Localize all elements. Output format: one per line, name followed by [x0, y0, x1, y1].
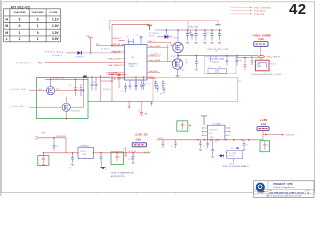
legend wire 1 [231, 6, 271, 9]
wire vertical x100 [100, 75, 112, 101]
ground sym below caps [128, 101, 131, 108]
caps row under rail C7 [135, 77, 138, 91]
svg-text:0: 0 [19, 17, 21, 21]
capacitor bank C4 [93, 77, 98, 90]
red dot near green box4 [189, 125, 190, 126]
resistor R1 [112, 36, 128, 40]
svg-text:VGA_LGATE: VGA_LGATE [149, 59, 161, 62]
svg-text:C?: C? [122, 77, 124, 79]
long rail wire y77 [88, 76, 153, 78]
capacitor C42 [236, 55, 241, 66]
capacitor C30 [100, 152, 103, 161]
rail label +1.2V_S5 [132, 132, 148, 146]
diode D5 filled above box [231, 147, 239, 150]
svg-text:VGA_CORE(S5M): VGA_CORE(S5M) [254, 6, 271, 9]
svg-text:C?: C? [246, 144, 248, 146]
svg-text:SOT23: SOT23 [149, 35, 155, 37]
svg-text:R?: R? [121, 91, 123, 93]
svg-text:R? 0_4: R? 0_4 [270, 63, 276, 65]
wire PQ2 drain right [70, 103, 83, 107]
label row above output rail [207, 49, 229, 53]
wire gate1 from controller [147, 43, 173, 46]
1.8v output rail [157, 138, 257, 141]
capacitor C37 [203, 140, 209, 149]
svg-text:S5_E: S5_E [59, 52, 65, 54]
svg-text:C?: C? [184, 124, 186, 126]
capacitor C41 [222, 55, 229, 66]
capacitor bank C3 [91, 77, 94, 91]
net stub label VGA_EN [59, 52, 77, 54]
diode D3 small filled [100, 161, 107, 171]
capacitor C25 [185, 55, 198, 70]
svg-text:Quanta Computer Inc.: Quanta Computer Inc. [274, 186, 296, 189]
regulator IC U3 [77, 145, 94, 159]
svg-text:P1V8_NB-S5: P1V8_NB-S5 [254, 11, 267, 13]
output rail wire [178, 55, 258, 57]
capacitor C26 right [240, 57, 247, 71]
regulator IC U4 [207, 124, 225, 140]
capacitor C43 [251, 56, 254, 66]
title block frame [254, 181, 314, 198]
svg-text:D?: D? [231, 148, 233, 150]
border zone ticks sides [0, 49, 315, 145]
project text [274, 183, 296, 189]
controller IC U1 [125, 45, 148, 81]
svg-text:+VIN_VGA: +VIN_VGA [188, 25, 199, 28]
svg-text:VIN VOUT: VIN VOUT [210, 129, 218, 131]
svg-text:VGA_CORE_PL: VGA_CORE_PL [267, 55, 281, 58]
capacitor C38 tall [211, 140, 214, 157]
capacitor C16 beside PQ3 [188, 33, 194, 39]
svg-text:PWR_SRC: PWR_SRC [56, 136, 67, 138]
module stubs [211, 56, 220, 62]
svg-text:NOTE: C? NEAR PIN VDD: NOTE: C? NEAR PIN VDD [111, 171, 134, 174]
capacitor C15 input bypass [190, 30, 192, 34]
svg-text:C?: C? [69, 167, 71, 169]
U1 top stubs [129, 38, 142, 45]
svg-text:U? AP1117: U? AP1117 [80, 145, 89, 148]
table data text [5, 17, 59, 41]
input rail wire [155, 29, 222, 31]
capacitor C10 [186, 29, 192, 40]
U1 right pin wires [147, 45, 168, 79]
legend wire 3 [231, 13, 265, 16]
svg-text:L: L [6, 37, 8, 41]
wire PQ4 source to ground [176, 69, 180, 77]
svg-text:R?: R? [160, 94, 162, 96]
wire sense box down [260, 46, 262, 55]
svg-text:42: 42 [289, 1, 307, 18]
resistor R2 [128, 41, 134, 43]
svg-text:H_VGA_VID<0>: H_VGA_VID<0> [16, 62, 32, 65]
table header text [13, 11, 58, 14]
mosfet PQ4 low-side [172, 56, 186, 71]
svg-text:C?: C? [209, 66, 211, 68]
capacitor C11 [194, 29, 197, 40]
capacitor C14 [218, 29, 221, 40]
svg-text:VGACORE1: VGACORE1 [31, 11, 44, 14]
output red wire with loop [236, 55, 280, 58]
svg-text:VGA_BST: VGA_BST [112, 37, 122, 40]
red rail in green box [45, 77, 88, 80]
red module box U2 [255, 58, 269, 71]
caps inside loop C19 [162, 81, 168, 89]
svg-text:Date: Friday, May 05, 2006: Date: Friday, May 05, 2006 Sheet 42 of 6… [266, 194, 302, 197]
capacitor C39 [243, 140, 249, 151]
wire gate PQ1 [10, 88, 47, 91]
svg-text:+VGA_CORE: +VGA_CORE [52, 77, 65, 80]
svg-text:C?: C? [138, 110, 140, 112]
capacitor C31 in green box3 [116, 152, 122, 161]
svg-text:PQ? 4435: PQ? 4435 [71, 111, 80, 113]
power bar +3VSUS [86, 36, 94, 54]
svg-text:C?: C? [171, 146, 173, 148]
border zone ticks bottom [20, 192, 215, 195]
svg-text:M: M [5, 31, 8, 35]
U1 bottom stubs with parts [129, 80, 143, 90]
capacitor C12 [203, 29, 209, 40]
capacitor C33 in green box4 [181, 122, 186, 130]
wire PQ1 drain right [55, 79, 85, 103]
svg-text:1: 1 [19, 37, 21, 41]
svg-text:C?: C? [93, 82, 95, 84]
svg-text:+3VS: +3VS [86, 36, 92, 38]
wire down to regulator row [65, 138, 67, 153]
svg-text:D?: D? [105, 169, 107, 171]
ground cluster under input caps [186, 43, 221, 44]
svg-text:C?: C? [219, 66, 221, 68]
svg-text:0: 0 [37, 17, 39, 21]
capacitor C36 [199, 140, 202, 151]
svg-text:(?) Removed GSRM_NB_v1.1.SCH: (?) Removed GSRM_NB_v1.1.SCH [251, 74, 282, 76]
capacitor C32 [132, 152, 135, 164]
offpage connector node [35, 132, 66, 139]
svg-text:+1.8V: +1.8V [260, 118, 268, 122]
svg-text:0: 0 [19, 24, 21, 28]
svg-text:VGA_CLKEN-: VGA_CLKEN- [108, 58, 121, 61]
svg-text:+1.8V_S5: +1.8V_S5 [285, 135, 295, 137]
svg-text:1.0V: 1.0V [52, 24, 59, 28]
svg-text:D? BAV70: D? BAV70 [75, 56, 84, 59]
voltage table [4, 9, 61, 42]
quanta logo [256, 183, 266, 195]
svg-text:(?): (?) [215, 51, 218, 53]
svg-text:R? 10_4: R? 10_4 [103, 77, 110, 79]
svg-text:R? 100K_4: R? 100K_4 [52, 55, 63, 57]
svg-text:0.9V: 0.9V [52, 37, 59, 41]
U1 right pin labels [149, 41, 162, 79]
wire into U1 pin row [96, 43, 125, 54]
capacitor C1 in green box [69, 79, 77, 97]
wire branch to input rail [187, 21, 189, 31]
svg-text:1: 1 [37, 37, 39, 41]
sense loop wire top [110, 21, 219, 32]
svg-text:U? G966: U? G966 [213, 124, 221, 126]
svg-text:0: 0 [37, 31, 39, 35]
svg-text:C?: C? [56, 146, 58, 148]
capacitor C27 [53, 137, 59, 150]
capacitor C35 [171, 140, 177, 148]
svg-text:H_VSUS_GATE: H_VSUS_GATE [10, 105, 25, 108]
legend wire 2 [231, 10, 267, 13]
capacitor C29 [69, 152, 74, 169]
svg-text:H_VCORE_GATE: H_VCORE_GATE [10, 88, 27, 91]
capacitor C40 in green box5 [263, 141, 269, 150]
svg-text:C?: C? [119, 156, 121, 158]
capacitor C23 in module [208, 66, 216, 73]
capacitor C22 [156, 84, 159, 93]
diode D4 filled [219, 154, 224, 157]
green group box 3 [111, 152, 124, 165]
long rail wire y101 [88, 100, 153, 102]
svg-text:VGA_FBO: VGA_FBO [149, 70, 159, 73]
svg-text:+1.2V_S5: +1.2V_S5 [134, 132, 148, 136]
svg-text:P1V8_S5M: P1V8_S5M [254, 14, 264, 16]
svg-text:U? G5P4: U? G5P4 [229, 153, 236, 155]
U4 pin stubs [203, 128, 230, 143]
wire red riser near table [112, 24, 150, 45]
svg-text:GSRM_V8_PWR_CONN: GSRM_V8_PWR_CONN [207, 49, 229, 51]
svg-text:R? 470K_4 1%: R? 470K_4 1% [45, 52, 59, 54]
svg-text:L?: L? [256, 51, 258, 53]
svg-text:C?: C? [188, 33, 190, 35]
wire gate PQ2 [10, 105, 62, 108]
capacitor C20 with red label [138, 101, 147, 116]
capacitor C5 red [117, 76, 124, 88]
capacitor C2 in green box [80, 84, 83, 96]
page frame border [1, 2, 314, 193]
red stub below loop corner [150, 101, 153, 106]
svg-text:VGA_UGATE: VGA_UGATE [149, 45, 162, 48]
border zone ticks top [20, 1, 293, 3]
caps inside loop C9 [154, 81, 157, 89]
svg-text:+1.2V_S5: +1.2V_S5 [128, 151, 136, 153]
svg-text:P1V8: P1V8 [158, 138, 163, 140]
svg-text:C?: C? [165, 83, 167, 85]
wire 1.8v to arrow [257, 131, 295, 140]
wire rating box to rail [124, 147, 151, 161]
svg-text:+VGA_CORE: +VGA_CORE [252, 33, 271, 37]
svg-text:42G-PWR DDR VGA CORE 1.2V/1.8V: 42G-PWR DDR VGA CORE 1.2V/1.8V [270, 191, 305, 194]
svg-text:C?: C? [126, 36, 128, 38]
U1 left pin wires and labels [122, 45, 125, 78]
capacitor C17 above U1 [136, 35, 143, 38]
svg-text:NOTE: U? G966-18D NEAR C?: NOTE: U? G966-18D NEAR C? [223, 165, 250, 168]
svg-text:QFN24: QFN24 [129, 66, 135, 68]
wire PQ2 source down [65, 111, 67, 119]
wire vertical x112 [111, 74, 112, 101]
regulator row rail [43, 152, 150, 154]
feedback loop rectangle [153, 78, 238, 102]
dark blob at green box top [83, 75, 87, 78]
power bar +VIN B [216, 24, 221, 26]
capacitor C6 [121, 83, 127, 93]
svg-text:R?: R? [239, 81, 241, 83]
green group box 1 [37, 78, 89, 119]
caps row under rail C8 [142, 77, 148, 91]
wire gate2 from controller [147, 61, 173, 63]
svg-text:10u: 10u [185, 62, 188, 64]
svg-text:1: 1 [37, 24, 39, 28]
svg-text:VGA_VR_ON: VGA_VR_ON [113, 43, 125, 46]
power bar 1.8v input [201, 116, 207, 125]
svg-text:C?: C? [267, 145, 269, 147]
svg-text:0.9A: 0.9A [136, 139, 141, 142]
current rating box VGA_CORE [252, 33, 271, 53]
bright net label wire [108, 72, 126, 75]
svg-text:V-CORE: V-CORE [49, 12, 58, 14]
svg-text:C?: C? [146, 84, 148, 86]
capacitor C28 in green box2 [42, 152, 45, 166]
svg-text:C? 10u: C? 10u [128, 159, 134, 161]
title block small rows [269, 189, 310, 192]
svg-text:R? 1K_4: R? 1K_4 [103, 89, 110, 91]
phase node wire [177, 53, 179, 60]
svg-text:VGA_SKIP: VGA_SKIP [111, 78, 122, 81]
svg-text:SOT23: SOT23 [229, 156, 234, 158]
svg-text:S5_RTC: S5_RTC [144, 152, 152, 154]
svg-text:C?: C? [69, 85, 71, 87]
label cluster blue [103, 77, 110, 91]
svg-text:1.1V: 1.1V [52, 17, 59, 21]
svg-text:1.0V: 1.0V [52, 31, 59, 35]
mosfet PQ3 high-side [173, 29, 183, 52]
svg-text:VGA_PH: VGA_PH [113, 51, 121, 54]
svg-text:0.4A: 0.4A [258, 38, 263, 41]
svg-text:C?: C? [222, 59, 224, 61]
svg-text:VGACORE0: VGACORE0 [13, 11, 26, 14]
note text bottom left [111, 171, 134, 178]
svg-text:C?: C? [136, 35, 138, 37]
svg-text:AP1117(SOT23): AP1117(SOT23) [111, 175, 125, 178]
net label wire VID row [16, 62, 125, 65]
svg-text:2.0A: 2.0A [261, 123, 266, 126]
page frame left shade [0, 0, 1, 196]
svg-text:R? 0_4: R? 0_4 [155, 54, 161, 56]
capacitor C34 [162, 140, 165, 148]
svg-text:M: M [5, 24, 8, 28]
green group box 2 [38, 156, 49, 166]
svg-text:C?: C? [240, 61, 242, 63]
svg-text:1: 1 [19, 31, 21, 35]
mosfet PQ2 [62, 97, 79, 113]
resistor R4 below phase [160, 88, 166, 96]
svg-text:VGA_PWRGD: VGA_PWRGD [108, 64, 122, 67]
power bar +VIN A [147, 25, 152, 30]
schottky diode PD1 (filled) [149, 29, 173, 39]
group outline capacitor module [204, 57, 236, 74]
svg-text:C?: C? [203, 146, 205, 148]
svg-text:IN OUT: IN OUT [81, 151, 87, 153]
green group box 4 [177, 121, 188, 131]
secondary box U5 [226, 151, 243, 166]
svg-text:C?: C? [207, 33, 209, 35]
green group box 5 [260, 141, 270, 152]
rail label +1.8V [257, 118, 269, 131]
capacitor C13 [210, 29, 213, 40]
mosfet PQ1 [38, 79, 60, 94]
capacitor C24 in module [218, 66, 227, 73]
svg-text:R? 10K_4: R? 10K_4 [101, 49, 109, 51]
svg-text:R? 0: R? 0 [123, 149, 127, 151]
svg-text:VGA_FB: VGA_FB [110, 72, 119, 75]
svg-text:BST_V: BST_V [149, 41, 156, 43]
svg-text:PROJECT : QT8: PROJECT : QT8 [274, 183, 294, 186]
diode PD2 (filled) [75, 51, 125, 59]
